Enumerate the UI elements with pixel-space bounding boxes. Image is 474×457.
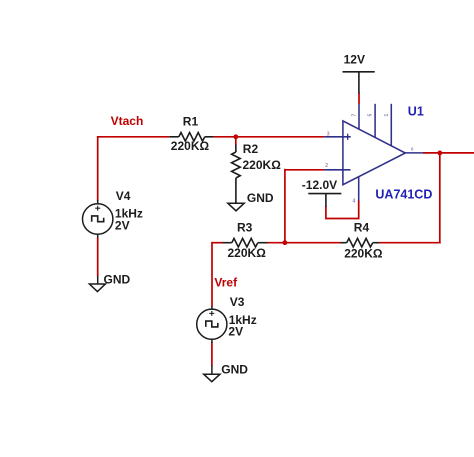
svg-text:Vtach: Vtach xyxy=(111,114,144,128)
svg-text:2: 2 xyxy=(325,163,328,169)
svg-text:7: 7 xyxy=(351,114,357,117)
wire R3 to node B to R4 xyxy=(268,242,341,244)
wire Vref vertical (corner down to V3) xyxy=(211,242,213,307)
plus tick inside op-amp xyxy=(347,134,349,140)
svg-text:4: 4 xyxy=(353,199,356,205)
pin 3 non-inverting input xyxy=(324,136,351,138)
op-amp U1 UA741CD xyxy=(324,104,423,201)
junction node B (R3/R4/feedback) xyxy=(283,240,288,245)
wire R4 to output drop xyxy=(379,242,441,244)
V4 plus sign xyxy=(95,206,100,211)
wire Vref corner to R3 xyxy=(212,242,223,244)
svg-text:Vref: Vref xyxy=(214,275,238,289)
V4 square-wave glyph xyxy=(92,216,104,222)
resistor R1 xyxy=(169,133,213,142)
svg-text:2V: 2V xyxy=(228,325,243,339)
wire positive supply drop (12V bar to op-amp pin 7) xyxy=(358,93,360,105)
source V4 (square wave) xyxy=(83,200,113,238)
svg-text:12V: 12V xyxy=(344,53,365,67)
pin 4 V- xyxy=(358,177,360,201)
pin 7 V+ xyxy=(358,104,360,130)
svg-text:V4: V4 xyxy=(116,189,131,203)
wire V4 minus down to ground xyxy=(97,238,99,277)
resistor R2 xyxy=(232,145,241,204)
ground (below V4) xyxy=(89,276,105,292)
svg-text:5: 5 xyxy=(367,114,373,117)
wire node A stub down to R2 xyxy=(235,137,237,145)
wire R1 to node A to op-amp pin 3 xyxy=(214,136,325,138)
svg-text:R3: R3 xyxy=(237,220,253,234)
svg-text:UA741CD: UA741CD xyxy=(375,188,432,202)
pin 6 output xyxy=(405,152,424,154)
junction output node xyxy=(437,151,442,156)
negative supply rail -12.0V xyxy=(308,194,341,207)
svg-text:GND: GND xyxy=(221,363,248,377)
ground (below V3) xyxy=(204,365,220,382)
junction node A (R1/R2/pin3) xyxy=(233,134,238,139)
wire output junction down to R4 row xyxy=(439,153,441,244)
wire op-amp pin 2 horizontal xyxy=(285,169,324,171)
resistor R3 xyxy=(223,238,268,247)
resistor R4 xyxy=(341,238,380,247)
positive supply rail 12V xyxy=(343,72,375,94)
svg-text:220KΩ: 220KΩ xyxy=(171,139,210,153)
wire op-amp output to right edge xyxy=(423,152,474,154)
ground (below R2) xyxy=(228,203,244,211)
op-amp triangle body xyxy=(343,121,405,185)
svg-text:220KΩ: 220KΩ xyxy=(344,247,383,261)
pin 5 offset null xyxy=(374,104,376,138)
svg-text:2V: 2V xyxy=(115,219,130,233)
svg-text:GND: GND xyxy=(247,191,274,205)
pin 1 offset null xyxy=(390,104,392,146)
svg-text:-12.0V: -12.0V xyxy=(302,178,337,192)
source V3 (square wave) xyxy=(197,306,227,343)
wire Vtach horizontal (V4 to R1) xyxy=(98,136,170,138)
svg-text:1: 1 xyxy=(384,114,390,117)
wire V3 minus down to ground xyxy=(211,342,213,366)
svg-text:R1: R1 xyxy=(183,114,199,128)
wire left vertical (Vtach corner down to V4 plus) xyxy=(97,136,99,201)
V3 plus sign xyxy=(209,311,214,316)
svg-text:R4: R4 xyxy=(354,221,370,235)
svg-text:U1: U1 xyxy=(408,105,424,119)
wire feedback vertical (pin 2 down to node B) xyxy=(284,169,286,244)
pin 2 inverting input xyxy=(324,169,350,171)
svg-text:6: 6 xyxy=(411,146,414,151)
wire negative supply hook (-12.0V bar to op-amp pin 4) xyxy=(326,200,359,219)
svg-text:220KΩ: 220KΩ xyxy=(243,158,282,172)
svg-text:V3: V3 xyxy=(230,295,245,309)
svg-text:3: 3 xyxy=(327,132,330,138)
svg-text:GND: GND xyxy=(104,272,131,286)
svg-text:220KΩ: 220KΩ xyxy=(228,246,267,260)
svg-text:R2: R2 xyxy=(243,142,259,156)
V3 square-wave glyph xyxy=(206,321,218,327)
